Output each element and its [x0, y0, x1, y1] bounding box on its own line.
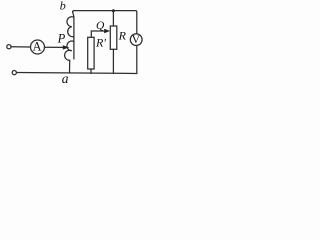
- slider arrowhead Q: [104, 29, 110, 34]
- rheostat rod a-b: [73, 12, 74, 60]
- resistor R': [88, 37, 94, 69]
- resistor R: [110, 26, 117, 49]
- wire ammeter to slider arrow: [44, 46, 64, 48]
- svg-text:R: R: [118, 29, 127, 43]
- svg-text:V: V: [132, 34, 141, 46]
- wire junction to R top: [112, 11, 114, 26]
- wire R bottom to bottom rail: [112, 49, 114, 73]
- svg-text:Q: Q: [96, 20, 105, 32]
- wire R' top to slider Q: [91, 31, 105, 37]
- ammeter A: [31, 40, 45, 54]
- top wire b to right rail: [73, 11, 137, 34]
- svg-text:a: a: [62, 71, 69, 86]
- svg-text:R′: R′: [95, 35, 106, 49]
- rheostat winding scallop group 2: [65, 41, 74, 73]
- wire V bottom to bottom rail: [136, 45, 138, 73]
- bottom wire rail: [17, 73, 137, 74]
- wire R' bottom to bottom rail: [90, 69, 92, 73]
- svg-text:A: A: [32, 40, 41, 54]
- terminal T2 (lower left): [12, 71, 16, 75]
- svg-text:b: b: [60, 0, 66, 13]
- junction dot on top wire: [112, 9, 115, 12]
- terminal T1 (upper left): [7, 45, 11, 49]
- wire T1 to ammeter: [11, 46, 30, 48]
- voltmeter V: [130, 34, 142, 46]
- slider arrowhead P: [63, 45, 70, 49]
- rheostat winding scallop group 1: [67, 17, 74, 37]
- svg-text:P: P: [57, 32, 66, 46]
